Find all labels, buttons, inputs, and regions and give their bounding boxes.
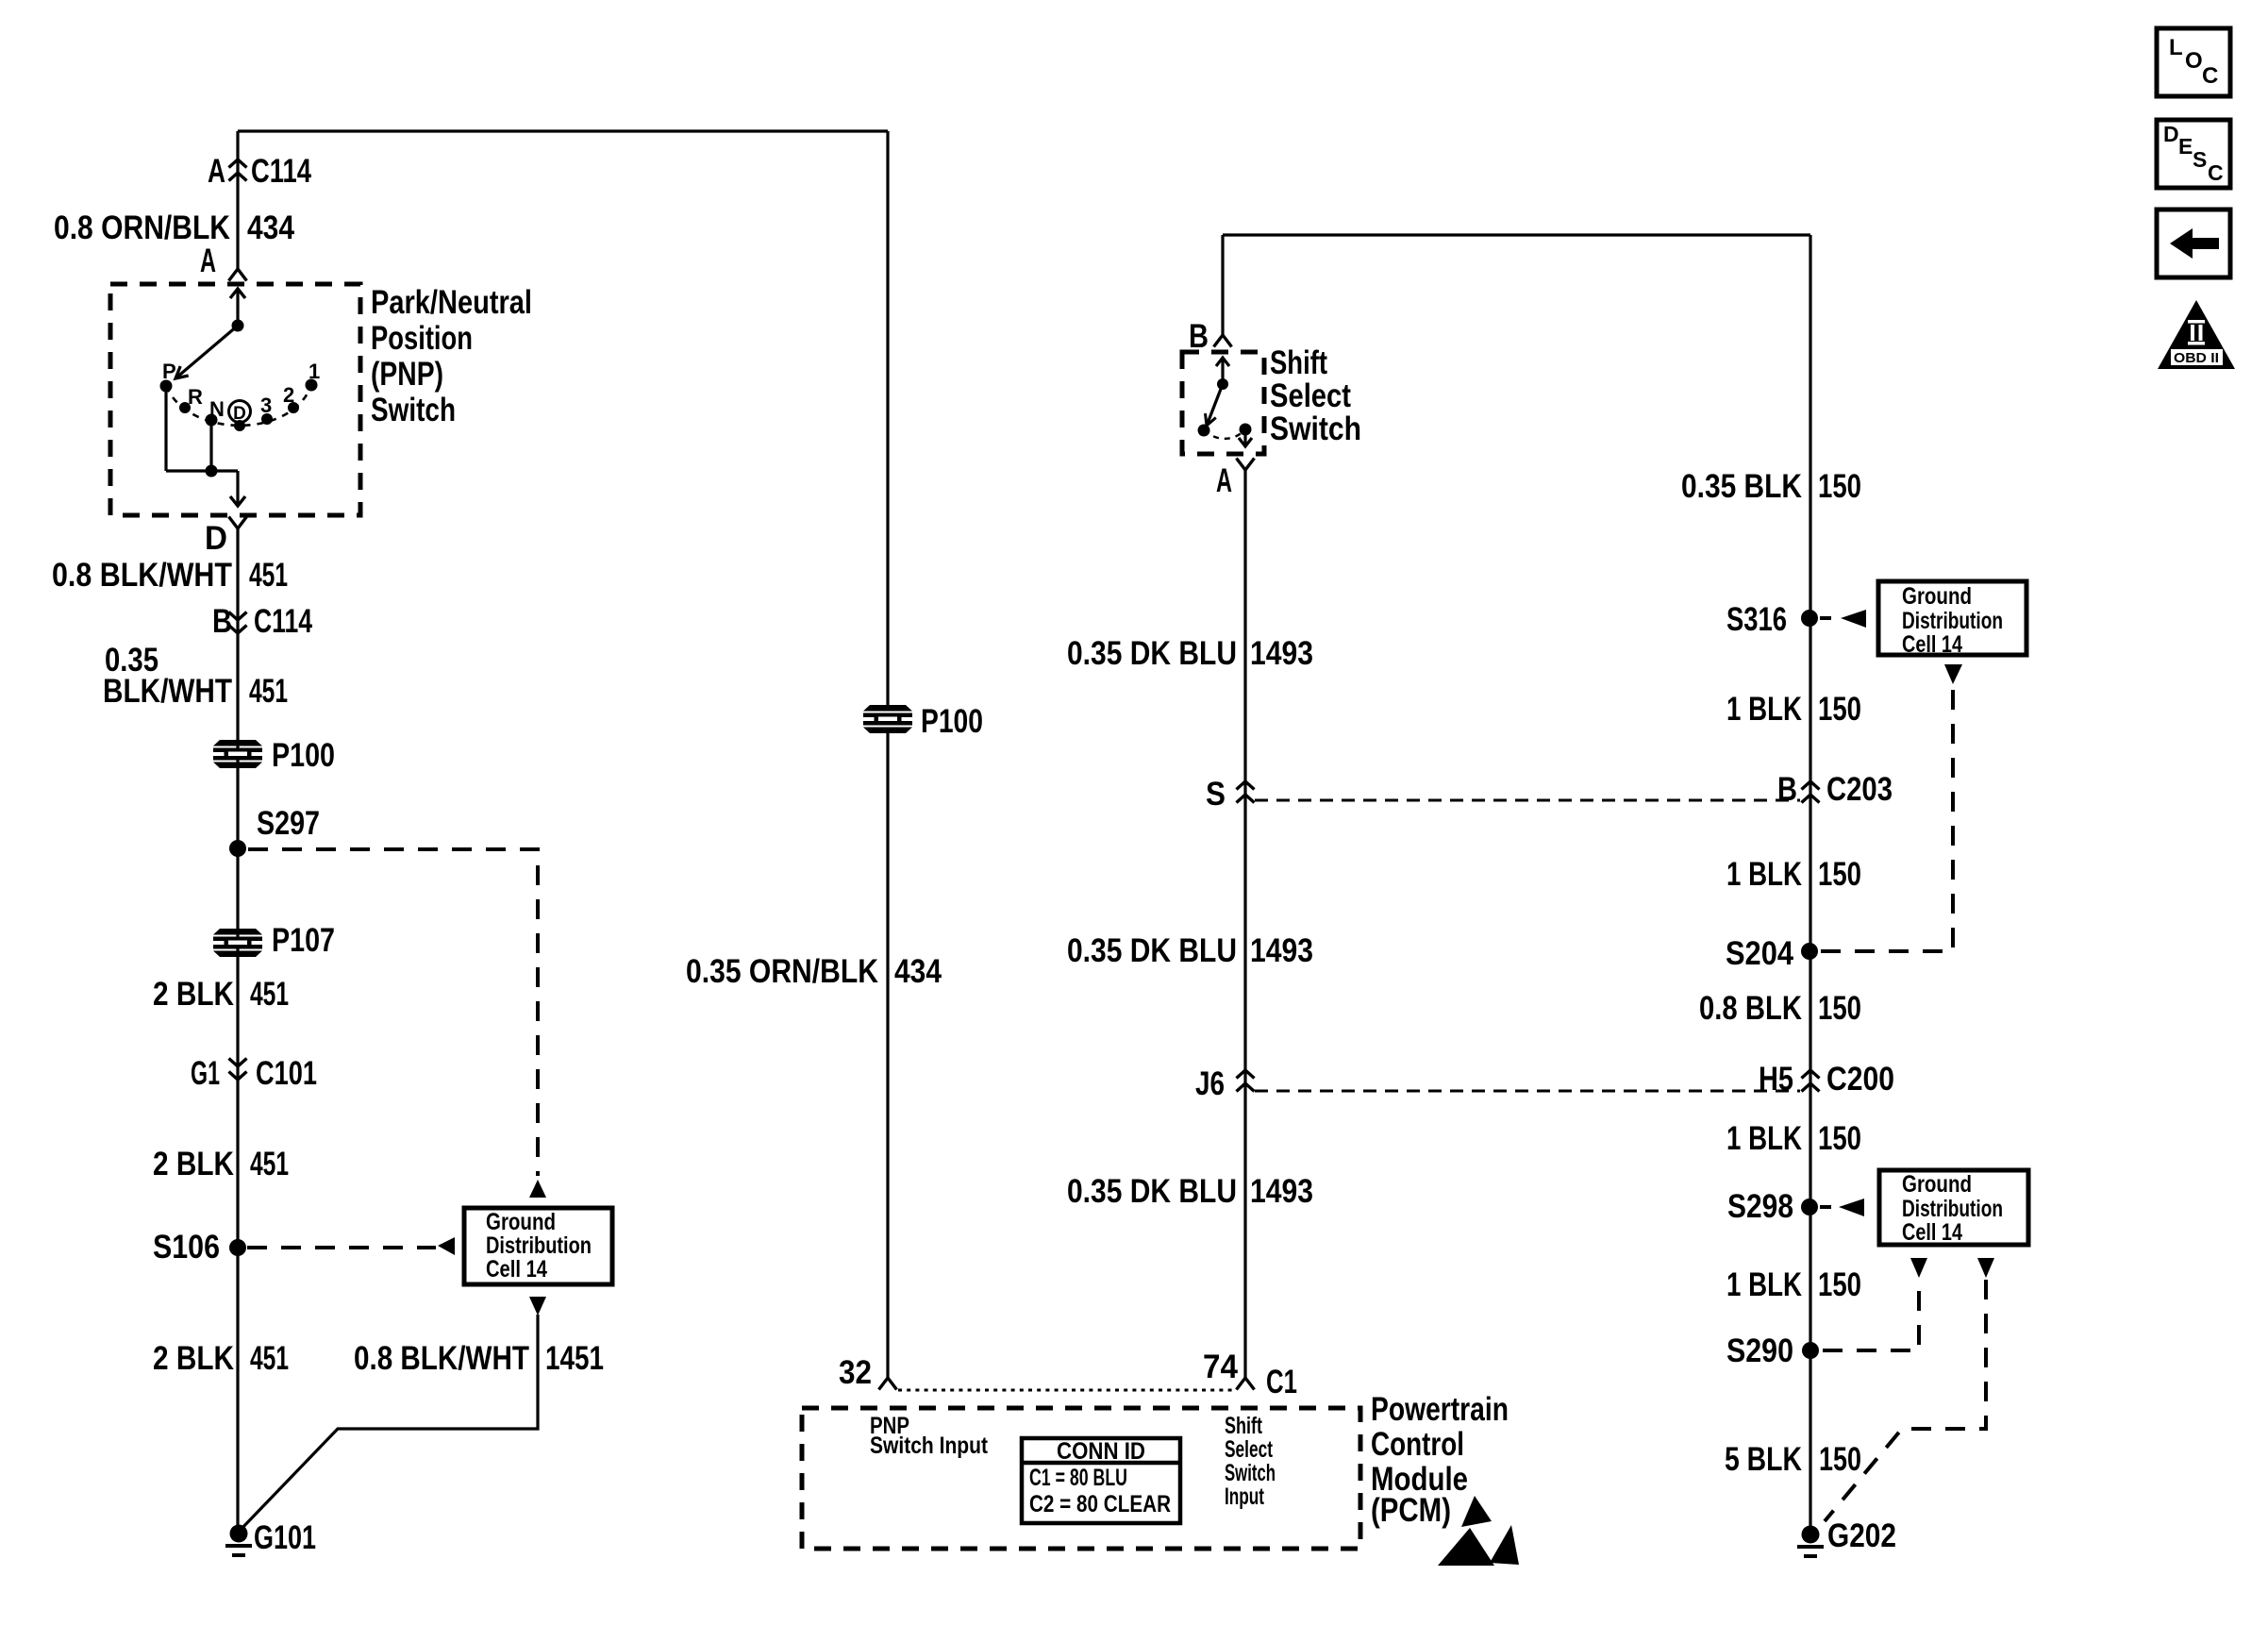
svg-text:1 BLK: 1 BLK	[1726, 856, 1802, 893]
svg-text:J6: J6	[1195, 1065, 1225, 1102]
svg-text:D: D	[2163, 122, 2179, 146]
svg-text:S: S	[2193, 147, 2207, 172]
svg-text:434: 434	[894, 953, 942, 990]
svg-text:Switch Input: Switch Input	[870, 1433, 989, 1459]
svg-text:1 BLK: 1 BLK	[1726, 1120, 1802, 1157]
svg-text:0.8 BLK/WHT: 0.8 BLK/WHT	[52, 557, 232, 594]
svg-text:0.35 ORN/BLK: 0.35 ORN/BLK	[686, 953, 878, 990]
svg-text:Switch: Switch	[371, 392, 456, 428]
svg-text:C1: C1	[1266, 1364, 1297, 1400]
svg-text:1493: 1493	[1250, 635, 1313, 672]
svg-text:1 BLK: 1 BLK	[1726, 691, 1802, 728]
svg-text:S106: S106	[153, 1229, 220, 1266]
svg-text:Distribution: Distribution	[486, 1232, 592, 1259]
svg-text:S: S	[1206, 776, 1226, 813]
svg-text:S290: S290	[1726, 1333, 1793, 1369]
svg-text:D: D	[233, 404, 246, 424]
svg-text:150: 150	[1818, 990, 1861, 1027]
svg-text:451: 451	[250, 1340, 289, 1377]
svg-text:Ground: Ground	[1902, 583, 1972, 610]
svg-text:(PCM): (PCM)	[1371, 1492, 1451, 1529]
svg-text:Park/Neutral: Park/Neutral	[371, 284, 532, 321]
svg-text:Ground: Ground	[486, 1209, 556, 1235]
svg-text:D: D	[205, 520, 227, 557]
svg-text:Control: Control	[1371, 1426, 1464, 1463]
svg-text:OBD II: OBD II	[2174, 350, 2219, 366]
svg-text:B: B	[1189, 318, 1209, 355]
svg-text:32: 32	[839, 1354, 872, 1391]
svg-text:C2 = 80 CLEAR: C2 = 80 CLEAR	[1029, 1491, 1171, 1517]
svg-text:L: L	[2169, 35, 2183, 60]
svg-text:G202: G202	[1827, 1517, 1896, 1554]
svg-text:Ground: Ground	[1902, 1171, 1972, 1198]
svg-text:0.35 DK BLU: 0.35 DK BLU	[1067, 635, 1237, 672]
svg-text:2 BLK: 2 BLK	[153, 1340, 234, 1377]
svg-text:150: 150	[1818, 1120, 1861, 1157]
svg-text:Select: Select	[1225, 1436, 1273, 1463]
svg-text:CONN ID: CONN ID	[1057, 1438, 1145, 1465]
svg-text:Input: Input	[1225, 1484, 1264, 1510]
svg-text:Position: Position	[371, 320, 473, 357]
svg-text:150: 150	[1818, 691, 1861, 728]
svg-text:Cell 14: Cell 14	[486, 1256, 547, 1282]
svg-text:2: 2	[283, 383, 294, 407]
svg-text:434: 434	[247, 210, 294, 246]
svg-text:1451: 1451	[545, 1340, 604, 1377]
svg-text:O: O	[2185, 48, 2203, 74]
svg-text:Shift: Shift	[1270, 344, 1327, 381]
svg-text:R: R	[188, 385, 203, 409]
svg-text:Cell 14: Cell 14	[1902, 1219, 1962, 1246]
svg-text:150: 150	[1818, 468, 1861, 505]
svg-text:A: A	[1216, 462, 1232, 499]
svg-text:C: C	[2208, 160, 2224, 185]
svg-text:A: A	[208, 153, 225, 190]
svg-text:150: 150	[1818, 1266, 1861, 1303]
svg-text:P107: P107	[272, 922, 335, 959]
svg-text:451: 451	[249, 557, 288, 594]
svg-text:C114: C114	[251, 153, 311, 190]
svg-text:P100: P100	[921, 703, 983, 740]
svg-text:451: 451	[250, 1146, 289, 1182]
svg-text:3: 3	[260, 394, 272, 417]
svg-text:S297: S297	[257, 805, 320, 842]
svg-text:H5: H5	[1759, 1061, 1793, 1098]
svg-text:Select: Select	[1270, 377, 1351, 414]
svg-text:Cell 14: Cell 14	[1902, 631, 1962, 658]
svg-text:S204: S204	[1726, 935, 1793, 972]
svg-text:G1: G1	[191, 1055, 220, 1092]
svg-text:451: 451	[249, 673, 288, 710]
svg-text:0.8 ORN/BLK: 0.8 ORN/BLK	[54, 210, 230, 246]
svg-text:C114: C114	[254, 603, 312, 640]
svg-text:Distribution: Distribution	[1902, 608, 2003, 634]
svg-text:Switch: Switch	[1270, 411, 1361, 447]
svg-text:1493: 1493	[1250, 932, 1313, 969]
svg-text:0.8 BLK/WHT: 0.8 BLK/WHT	[354, 1340, 529, 1377]
svg-text:451: 451	[250, 976, 289, 1013]
svg-text:E: E	[2178, 134, 2193, 159]
svg-text:S298: S298	[1727, 1188, 1793, 1225]
svg-text:5 BLK: 5 BLK	[1725, 1441, 1802, 1478]
svg-text:(PNP): (PNP)	[371, 356, 443, 393]
svg-text:0.35 BLK: 0.35 BLK	[1681, 468, 1802, 505]
svg-text:Powertrain: Powertrain	[1371, 1391, 1509, 1428]
svg-text:S316: S316	[1726, 601, 1787, 638]
svg-text:G101: G101	[254, 1519, 316, 1556]
svg-text:0.35 DK BLU: 0.35 DK BLU	[1067, 1173, 1237, 1210]
svg-text:150: 150	[1819, 1441, 1861, 1478]
svg-text:P100: P100	[272, 737, 335, 774]
svg-text:C101: C101	[256, 1055, 317, 1092]
svg-text:BLK/WHT: BLK/WHT	[103, 673, 232, 710]
svg-text:Switch: Switch	[1225, 1460, 1276, 1486]
svg-text:2 BLK: 2 BLK	[153, 1146, 234, 1182]
svg-text:150: 150	[1818, 856, 1861, 893]
svg-text:Shift: Shift	[1225, 1413, 1262, 1439]
svg-text:74: 74	[1203, 1349, 1239, 1385]
svg-text:B: B	[212, 603, 232, 640]
svg-text:C1 = 80 BLU: C1 = 80 BLU	[1029, 1465, 1127, 1491]
svg-text:1: 1	[309, 360, 320, 383]
svg-text:2 BLK: 2 BLK	[153, 976, 234, 1013]
svg-text:0.35 DK BLU: 0.35 DK BLU	[1067, 932, 1237, 969]
svg-text:B: B	[1777, 771, 1797, 808]
svg-text:C203: C203	[1826, 771, 1893, 808]
svg-text:0.8 BLK: 0.8 BLK	[1699, 990, 1802, 1027]
svg-text:Distribution: Distribution	[1902, 1196, 2003, 1222]
svg-text:P: P	[162, 360, 176, 383]
svg-text:N: N	[209, 397, 225, 421]
svg-text:1 BLK: 1 BLK	[1726, 1266, 1802, 1303]
svg-text:C: C	[2202, 63, 2218, 89]
svg-text:C200: C200	[1826, 1061, 1894, 1098]
svg-text:1493: 1493	[1250, 1173, 1313, 1210]
svg-text:A: A	[200, 243, 216, 279]
